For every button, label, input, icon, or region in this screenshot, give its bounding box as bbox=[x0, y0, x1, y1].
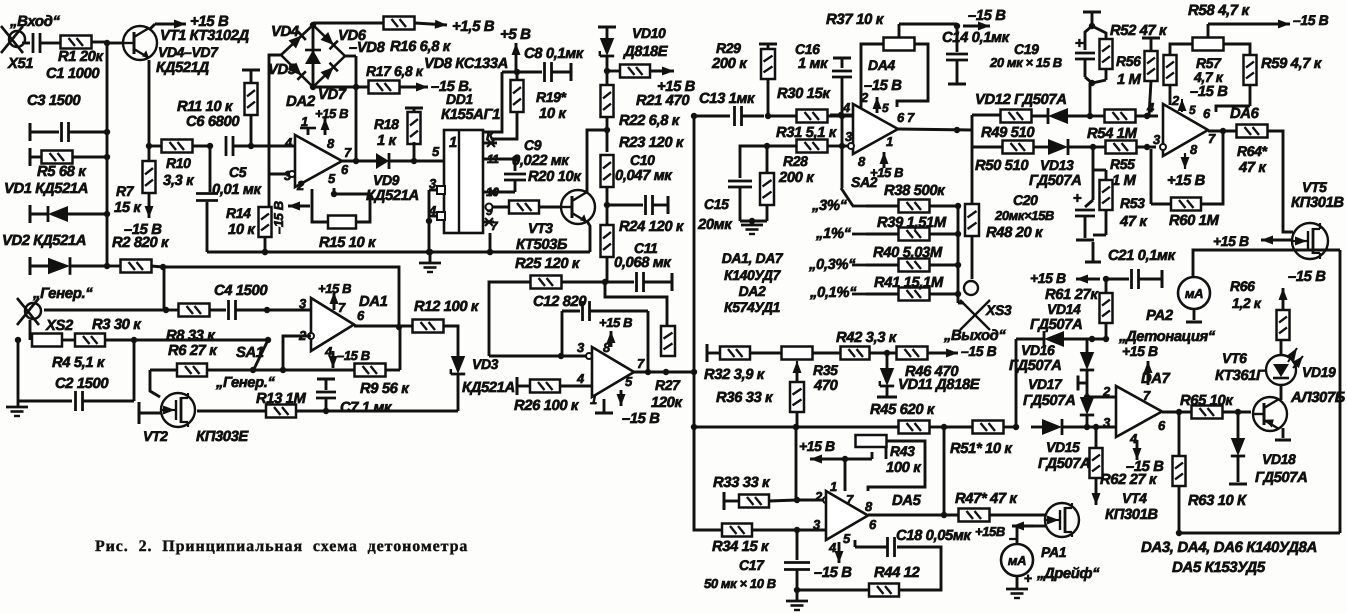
svg-text:0,047 мк: 0,047 мк bbox=[615, 168, 673, 184]
svg-text:R55: R55 bbox=[1110, 156, 1135, 172]
svg-text:1 к: 1 к bbox=[377, 133, 398, 149]
svg-text:6: 6 bbox=[869, 517, 877, 532]
svg-text:5: 5 bbox=[882, 101, 889, 115]
label C20 bbox=[994, 192, 1054, 223]
pin 3 DD1 bbox=[429, 176, 445, 194]
svg-text:2: 2 bbox=[860, 90, 869, 105]
svg-text:С10: С10 bbox=[630, 152, 655, 168]
capacitor C15 bbox=[697, 146, 767, 233]
pin 4 DA1 bbox=[324, 344, 370, 368]
svg-text:КП301В: КП301В bbox=[1291, 195, 1344, 211]
svg-text:С5: С5 bbox=[229, 164, 247, 180]
wire DD1 gnd bbox=[487, 233, 493, 255]
svg-text:R39 1,51М: R39 1,51М bbox=[877, 215, 947, 231]
resistor R48 bbox=[965, 147, 1044, 279]
pin K DD1 bbox=[483, 128, 497, 147]
pot R35 bbox=[782, 347, 839, 395]
node R65 bbox=[1235, 409, 1241, 415]
pin 3 DA4 bbox=[838, 129, 854, 149]
svg-text:РА2: РА2 bbox=[1146, 308, 1174, 324]
pin 4 DD1 bbox=[428, 203, 445, 220]
node R3 bbox=[131, 337, 137, 343]
transistor VT6 pnp bbox=[1253, 397, 1287, 431]
pin 4 DA4 bbox=[830, 100, 853, 118]
resistor R21 bbox=[607, 65, 696, 96]
svg-text:1: 1 bbox=[590, 392, 597, 407]
svg-text:R45 620 к: R45 620 к bbox=[870, 402, 936, 418]
transistor VT5 fet bbox=[1292, 223, 1328, 259]
pin 67 DA4 bbox=[897, 110, 915, 125]
svg-text:R10: R10 bbox=[166, 155, 191, 171]
svg-text:R31 5,1 к: R31 5,1 к bbox=[776, 125, 838, 141]
capacitor C6 bbox=[186, 114, 251, 156]
svg-text:1 М: 1 М bbox=[1117, 72, 1142, 88]
pin 8 DA4 bbox=[858, 154, 866, 169]
svg-text:–15 В: –15 В bbox=[1190, 84, 1228, 100]
diode VD16 bbox=[1009, 342, 1094, 374]
pin 3 DA7 bbox=[1103, 415, 1111, 430]
branch split bbox=[971, 115, 974, 147]
svg-text:R41 15,1М: R41 15,1М bbox=[874, 275, 944, 291]
resistor R51 bbox=[944, 421, 1016, 458]
pin 7 DD1 bbox=[483, 218, 499, 233]
svg-text:6 7: 6 7 bbox=[897, 110, 915, 125]
svg-text:DD1: DD1 bbox=[446, 91, 473, 107]
ground PA1 bbox=[1006, 576, 1028, 598]
wire VT6 up bbox=[1280, 386, 1283, 400]
feedback R15 loop bbox=[288, 188, 370, 222]
label Вход bbox=[9, 13, 61, 30]
svg-text:„Вход“: „Вход“ bbox=[9, 13, 61, 30]
resistor R63 bbox=[1173, 412, 1248, 536]
connector XS2 bbox=[17, 298, 74, 334]
svg-text:КД521А: КД521А bbox=[462, 380, 515, 396]
resistor R59 bbox=[1216, 44, 1323, 112]
svg-text:АЛ307Б: АЛ307Б bbox=[1290, 390, 1345, 406]
svg-text:R32 3,9 к: R32 3,9 к bbox=[704, 367, 766, 383]
svg-text:R35: R35 bbox=[813, 362, 838, 378]
svg-text:3: 3 bbox=[845, 129, 853, 144]
op-amp DA6 body bbox=[1163, 104, 1208, 156]
svg-text:мА: мА bbox=[1008, 553, 1026, 568]
svg-text:470: 470 bbox=[813, 378, 839, 394]
wire C19 drop bbox=[1089, 83, 1092, 116]
svg-text:С14 0,1мк: С14 0,1мк bbox=[942, 30, 1011, 46]
resistor R8 bbox=[163, 304, 226, 345]
svg-text:РА1: РА1 bbox=[1041, 544, 1067, 560]
svg-text:R9 56 к: R9 56 к bbox=[360, 381, 410, 397]
label DA5 bbox=[892, 493, 922, 509]
svg-text:4,7 к: 4,7 к bbox=[1193, 69, 1224, 85]
resistor R39 bbox=[866, 215, 961, 241]
diode VD13 bbox=[1029, 139, 1093, 189]
svg-text:1: 1 bbox=[886, 134, 893, 149]
pin 4 DA7 bbox=[1129, 431, 1142, 460]
svg-text:DA3, DA4, DA6 К140УД8А: DA3, DA4, DA6 К140УД8А bbox=[1141, 539, 1317, 556]
wire right border bbox=[1339, 250, 1342, 533]
contact 1pc bbox=[815, 226, 866, 242]
resistor R18 bbox=[374, 108, 423, 161]
svg-text:R50 510: R50 510 bbox=[975, 158, 1029, 174]
power +15 DA3 bbox=[599, 315, 632, 347]
svg-text:2: 2 bbox=[1102, 384, 1111, 399]
op-amp DA2 body bbox=[295, 135, 342, 187]
op-amp DA7 body bbox=[1116, 386, 1162, 437]
svg-text:С16: С16 bbox=[795, 41, 820, 57]
resistor R9 bbox=[355, 327, 411, 397]
resistor R29 bbox=[711, 40, 777, 116]
svg-text:4: 4 bbox=[842, 100, 851, 115]
svg-text:+15 В: +15 В bbox=[315, 106, 348, 121]
zener VD11 bbox=[877, 353, 981, 397]
svg-text:–15 В: –15 В bbox=[124, 222, 162, 238]
svg-text:С2 1500: С2 1500 bbox=[55, 376, 109, 392]
svg-text:ГД507А: ГД507А bbox=[1029, 173, 1081, 189]
svg-text:+15 В: +15 В bbox=[870, 165, 903, 180]
svg-text:1 М: 1 М bbox=[1112, 173, 1137, 189]
svg-text:С8 0,1мк: С8 0,1мк bbox=[524, 46, 585, 62]
svg-text:R63 10 К: R63 10 К bbox=[1188, 493, 1247, 509]
pot R43 bbox=[856, 435, 923, 476]
resistor R10 bbox=[149, 140, 210, 190]
transistor VT1 bbox=[107, 26, 157, 60]
svg-text:5: 5 bbox=[843, 531, 851, 546]
resistor R62 bbox=[1090, 424, 1159, 505]
svg-text:50 мк × 10 В: 50 мк × 10 В bbox=[704, 576, 776, 591]
wire R2 to DA1 out bbox=[163, 267, 399, 327]
svg-text:R60 1М: R60 1М bbox=[1169, 213, 1219, 229]
svg-text:VD14: VD14 bbox=[1047, 301, 1081, 317]
svg-text:DA6: DA6 bbox=[1230, 106, 1260, 122]
wire SA1 to fb bbox=[253, 369, 283, 372]
node out DA2 bbox=[353, 158, 359, 164]
connector X51 bbox=[1, 26, 33, 72]
svg-text:R7: R7 bbox=[116, 183, 135, 199]
svg-text:ГД507А: ГД507А bbox=[1038, 456, 1090, 472]
resistor R22 bbox=[601, 71, 681, 130]
pin 3 DA5 bbox=[813, 517, 821, 532]
wire pin3 DA3 bbox=[561, 353, 592, 359]
pin 5 DA2 bbox=[328, 171, 336, 186]
svg-text:R27: R27 bbox=[655, 377, 681, 393]
svg-text:10 к: 10 к bbox=[539, 106, 567, 122]
power +5V C8 bbox=[483, 26, 585, 132]
svg-text:R62 27 к: R62 27 к bbox=[1100, 472, 1158, 488]
svg-text:R36 33 к: R36 33 к bbox=[716, 390, 774, 406]
rail gnd DD1 bbox=[207, 249, 590, 255]
svg-text:1 мк: 1 мк bbox=[798, 56, 829, 72]
op-amp DA4 body bbox=[853, 104, 898, 154]
diode VD1 bbox=[4, 181, 110, 223]
wire out DA1 bbox=[354, 324, 413, 330]
wire trunk input bbox=[106, 42, 109, 267]
pin 2 DA1 bbox=[298, 328, 314, 343]
svg-text:–: – bbox=[1009, 530, 1017, 547]
wire bridge to pin3 bbox=[269, 55, 281, 174]
switch SA1 bbox=[236, 337, 271, 373]
power +15 DA6 bbox=[1167, 173, 1206, 189]
label DA1 bbox=[359, 294, 388, 310]
label DA2 bbox=[286, 93, 316, 110]
wire to XS2 net bbox=[163, 267, 166, 310]
svg-text:„Выход“: „Выход“ bbox=[943, 328, 1006, 344]
svg-text:0,01 мк: 0,01 мк bbox=[212, 182, 262, 198]
label -15 DA3 bbox=[622, 411, 660, 427]
wire bottom right bbox=[1179, 532, 1340, 535]
svg-text:КД521А: КД521А bbox=[366, 188, 419, 204]
resistor R14 bbox=[226, 174, 272, 255]
resistor R31 bbox=[767, 125, 838, 153]
svg-text:7: 7 bbox=[338, 300, 346, 315]
pin 5 DA3 bbox=[617, 374, 634, 406]
label C21 bbox=[1108, 248, 1177, 264]
svg-text:200 к: 200 к bbox=[711, 56, 748, 72]
resistor R66 bbox=[1230, 269, 1326, 355]
svg-text:R22 6,8 к: R22 6,8 к bbox=[619, 113, 681, 129]
cap C20 block bbox=[1073, 147, 1095, 240]
svg-text:R43: R43 bbox=[890, 443, 915, 459]
label Генер 1 bbox=[32, 285, 93, 302]
svg-text:„1%“: „1%“ bbox=[815, 226, 852, 242]
wire R25 to pin3 DA3 bbox=[489, 353, 564, 359]
svg-text:R58 4,7 к: R58 4,7 к bbox=[1188, 2, 1251, 19]
svg-text:VD10: VD10 bbox=[632, 25, 666, 41]
svg-text:С3 1500: С3 1500 bbox=[27, 93, 81, 109]
capacitor C3 bbox=[27, 93, 110, 142]
pin 8 DA3 bbox=[603, 340, 611, 355]
diode VD17 bbox=[1023, 376, 1094, 427]
node R29 bbox=[765, 113, 771, 119]
capacitor C16 bbox=[795, 41, 852, 116]
node B C6 bbox=[248, 143, 254, 149]
svg-text:Х51: Х51 bbox=[7, 56, 33, 72]
svg-text:R20 10к: R20 10к bbox=[528, 169, 582, 185]
svg-text:DA7: DA7 bbox=[1141, 371, 1171, 387]
wire out DA3 bbox=[634, 369, 697, 375]
diode VD4 bridge bbox=[281, 25, 313, 55]
svg-text:R21 470: R21 470 bbox=[636, 93, 690, 109]
svg-text:R19*: R19* bbox=[536, 89, 566, 105]
svg-text:R14: R14 bbox=[226, 205, 251, 221]
svg-text:+5 В: +5 В bbox=[500, 26, 531, 43]
svg-text:VТ4: VТ4 bbox=[1122, 490, 1147, 506]
svg-text:R24 120 к: R24 120 к bbox=[619, 219, 685, 235]
wire XS2 out bbox=[44, 309, 164, 312]
svg-text:VD8 КС133А: VD8 КС133А bbox=[424, 56, 508, 72]
svg-text:VD16: VD16 bbox=[1021, 342, 1055, 358]
wire out DA5 bbox=[868, 515, 959, 532]
svg-text:R51* 10 к: R51* 10 к bbox=[950, 441, 1013, 457]
node bridge bottom bbox=[310, 84, 316, 90]
svg-text:„3%“: „3%“ bbox=[811, 198, 848, 214]
node pin3 DA6 bbox=[1144, 144, 1150, 150]
wire PA1 arrow bbox=[1012, 522, 1046, 531]
svg-text:VD5: VD5 bbox=[268, 62, 297, 78]
cap C21 cap bbox=[1106, 269, 1162, 289]
wire PA2 top bbox=[1193, 250, 1340, 277]
node base VT1 bbox=[104, 40, 110, 46]
svg-text:С4 1500: С4 1500 bbox=[214, 283, 268, 299]
svg-text:КТ361Г: КТ361Г bbox=[1215, 368, 1266, 384]
svg-text:8: 8 bbox=[1190, 142, 1198, 157]
capacitor C11 bbox=[605, 240, 672, 292]
contact 03pc bbox=[808, 257, 866, 273]
svg-text:R64*: R64* bbox=[1237, 143, 1267, 159]
svg-text:DA5 К153УД5: DA5 К153УД5 bbox=[1172, 559, 1266, 576]
svg-text:3: 3 bbox=[577, 340, 585, 355]
svg-text:VТ2: VТ2 bbox=[143, 428, 168, 444]
pin 6 DA7 bbox=[1158, 418, 1166, 433]
svg-text:R1 20к: R1 20к bbox=[58, 49, 104, 65]
wire pin3 DA1 bbox=[267, 309, 311, 312]
IC DD1 body bbox=[444, 130, 483, 233]
svg-text:С11: С11 bbox=[634, 240, 658, 256]
svg-text:VD1 КД521А: VD1 КД521А bbox=[4, 181, 88, 197]
svg-text:С20: С20 bbox=[1013, 192, 1038, 208]
diode chain top bbox=[1086, 339, 1089, 352]
svg-text:ХS3: ХS3 bbox=[985, 302, 1012, 318]
resistor R42 bbox=[812, 330, 898, 360]
svg-text:10 к: 10 к bbox=[228, 222, 256, 238]
wire R45 row bbox=[694, 424, 899, 430]
pin 3 DA1 bbox=[299, 296, 307, 311]
resistor R56 bbox=[1116, 38, 1160, 116]
pin 8 DA6 bbox=[1181, 142, 1199, 169]
label VD6 bbox=[338, 28, 367, 44]
svg-text:С21 0,1мк: С21 0,1мк bbox=[1108, 248, 1177, 264]
svg-text:+1,5 В: +1,5 В bbox=[452, 18, 495, 35]
power +15 VT4 bbox=[975, 524, 1005, 539]
svg-text:47 к: 47 к bbox=[1119, 214, 1148, 230]
power +15 DA7 bbox=[1122, 343, 1158, 385]
svg-text:R38 500к: R38 500к bbox=[884, 183, 946, 199]
svg-text:6: 6 bbox=[357, 308, 365, 323]
cap C19 block bbox=[1075, 12, 1106, 77]
wire E to R27 bbox=[605, 282, 667, 326]
svg-text:VТ1 КТ3102Д: VТ1 КТ3102Д bbox=[160, 28, 249, 44]
capacitor C12 bbox=[533, 294, 666, 372]
wire trunk to R34 bbox=[694, 427, 722, 530]
capacitor C1 bbox=[22, 33, 100, 82]
svg-text:VD4: VD4 bbox=[271, 24, 299, 40]
svg-text:Рис. 2. Принципиальная схема д: Рис. 2. Принципиальная схема детонометра bbox=[95, 538, 468, 555]
node bridge top bbox=[310, 22, 316, 28]
svg-text:R44 12: R44 12 bbox=[874, 565, 920, 581]
node VD13 bbox=[1090, 144, 1096, 150]
wire sa2 col bbox=[841, 116, 844, 188]
node R61 bbox=[1103, 336, 1109, 342]
resistor R46 bbox=[897, 343, 997, 380]
wire DA2 out bbox=[342, 160, 376, 163]
meter PA1 bbox=[1001, 527, 1033, 586]
svg-text:6: 6 bbox=[341, 162, 349, 177]
svg-text:R30 15к: R30 15к bbox=[777, 86, 831, 102]
resistor R1 bbox=[46, 36, 107, 66]
node R31 bbox=[764, 143, 770, 149]
label +15V VT1 bbox=[190, 13, 229, 30]
svg-text:8: 8 bbox=[865, 499, 873, 514]
pin 1 DA2 bbox=[300, 114, 316, 135]
svg-text:+15 В: +15 В bbox=[1122, 343, 1158, 359]
svg-text:VD15: VD15 bbox=[1046, 439, 1080, 455]
svg-text:R25 120 к: R25 120 к bbox=[515, 256, 581, 272]
transistor VT2 fet bbox=[143, 393, 249, 445]
diode VD12 bbox=[975, 92, 1090, 124]
svg-text:15 к: 15 к bbox=[114, 200, 142, 216]
svg-text:R15 10 к: R15 10 к bbox=[319, 235, 377, 251]
svg-text:С9: С9 bbox=[524, 137, 542, 153]
capacitor C17 bbox=[704, 530, 810, 593]
svg-text:+: + bbox=[1073, 190, 1082, 207]
node pin3 DA1 bbox=[264, 307, 270, 313]
svg-text:VD19: VD19 bbox=[1302, 364, 1336, 380]
node VD12 bbox=[1087, 113, 1093, 119]
capacitor C13 bbox=[694, 91, 764, 126]
meter PA2 bbox=[1146, 277, 1210, 324]
svg-text:ХS2: ХS2 bbox=[45, 318, 74, 334]
svg-text:VD2 КД521А: VD2 КД521А bbox=[2, 233, 86, 249]
svg-text:К140УД7: К140УД7 bbox=[724, 267, 782, 283]
svg-text:VD13: VD13 bbox=[1040, 157, 1074, 173]
svg-text:R42 3,3 к: R42 3,3 к bbox=[836, 330, 898, 346]
transistor VT3 bbox=[516, 190, 595, 253]
node C17 bbox=[794, 527, 800, 533]
svg-text:DA5: DA5 bbox=[892, 493, 922, 509]
svg-text:R4 5,1 к: R4 5,1 к bbox=[52, 355, 106, 371]
svg-text:20мк: 20мк bbox=[697, 217, 733, 233]
node R2 right bbox=[160, 264, 166, 270]
wire out DA7 bbox=[1162, 409, 1192, 415]
node emitter junction bbox=[146, 143, 152, 149]
label DA4 bbox=[864, 57, 902, 94]
wire gate net bbox=[197, 410, 266, 413]
pin 6 DA6 bbox=[1203, 106, 1211, 121]
svg-text:+: + bbox=[1075, 35, 1084, 52]
svg-text:3: 3 bbox=[299, 296, 307, 311]
label ICs right bbox=[1141, 539, 1317, 576]
resistor R20 bbox=[492, 169, 582, 214]
resistor R11 bbox=[177, 70, 260, 146]
svg-text:8: 8 bbox=[858, 154, 866, 169]
svg-text:+15 В: +15 В bbox=[799, 438, 835, 454]
svg-text:R12 100 к: R12 100 к bbox=[414, 299, 480, 315]
label C19 bbox=[989, 41, 1062, 70]
svg-text:–15 В: –15 В bbox=[814, 565, 852, 581]
svg-text:С12 820: С12 820 bbox=[533, 294, 587, 310]
wire c15 gnd bbox=[740, 218, 767, 234]
svg-text:1,2 к: 1,2 к bbox=[1232, 295, 1262, 311]
contact 3pc bbox=[811, 198, 866, 214]
svg-text:2: 2 bbox=[296, 178, 305, 193]
wire VT1 emitter bbox=[148, 60, 151, 146]
zener VD10 bbox=[598, 25, 669, 71]
wire SA1 top bbox=[134, 339, 268, 342]
label R21 bbox=[636, 93, 690, 109]
svg-text:С7 1 мк: С7 1 мк bbox=[340, 400, 393, 416]
svg-text:ГД507А: ГД507А bbox=[1255, 470, 1307, 486]
resistor R30 bbox=[768, 86, 854, 123]
label VD4-VD7 bbox=[156, 44, 219, 76]
wire R58 top bbox=[1188, 2, 1329, 37]
svg-text:3: 3 bbox=[1103, 415, 1111, 430]
power +15 VT5 bbox=[1213, 233, 1292, 249]
svg-text:7: 7 bbox=[846, 492, 854, 507]
diode VD5 bridge bbox=[281, 55, 313, 87]
resistor R7 bbox=[114, 146, 156, 218]
svg-text:+15 В: +15 В bbox=[1167, 173, 1206, 189]
pin 5 DA5 bbox=[843, 531, 851, 546]
node A C5 bbox=[207, 143, 213, 149]
